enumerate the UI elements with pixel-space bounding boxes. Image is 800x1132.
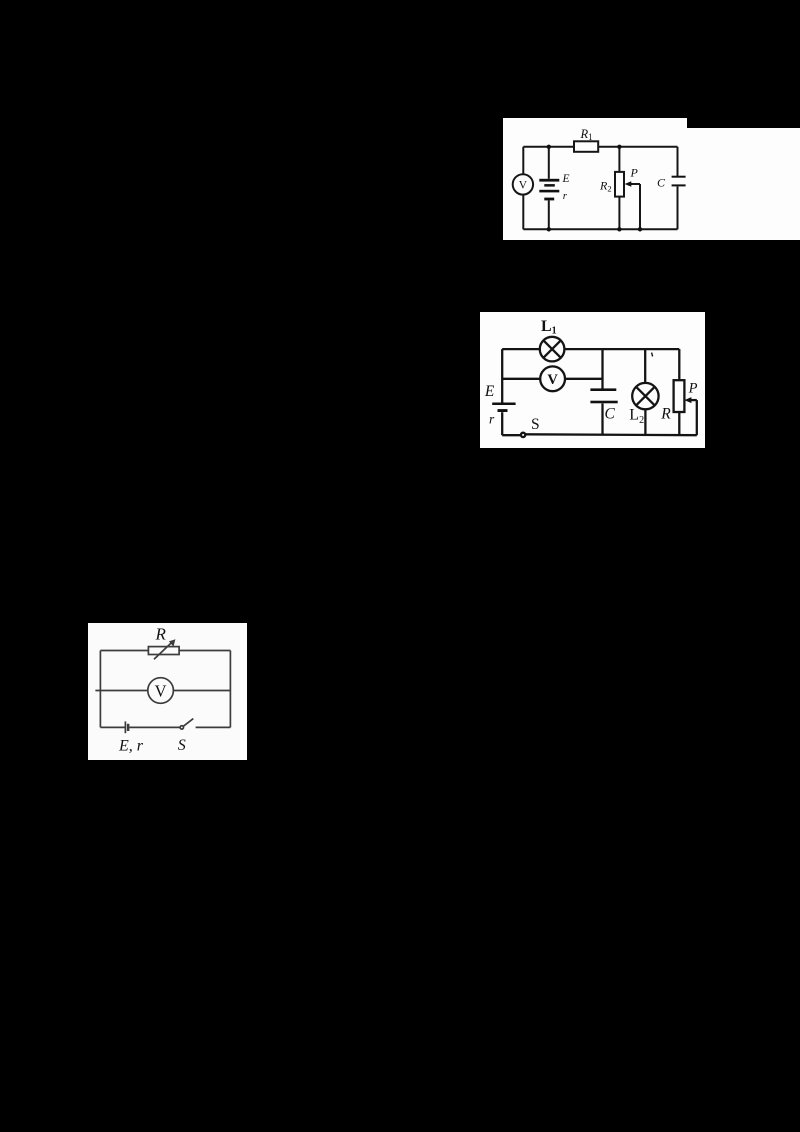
switch S contact circle [521, 433, 525, 437]
wire wiper P vertical [696, 400, 698, 435]
wire capacitor branch bottom [677, 186, 679, 229]
node D dot bottom R2 junction [617, 227, 621, 231]
capacitor C plate top [672, 176, 686, 178]
wire voltmeter row left [502, 378, 540, 380]
capacitor C plate bottom [590, 401, 617, 404]
battery E r plate short 2 [544, 198, 554, 201]
node A dot top battery junction [547, 145, 551, 149]
svg-text:S: S [178, 737, 186, 754]
wire top rail right segment [179, 650, 230, 652]
wire capacitor branch top [677, 147, 679, 176]
wire left vertical upper [501, 349, 503, 402]
svg-text:V: V [547, 372, 558, 388]
node B dot top R2 junction [617, 145, 621, 149]
svg-text:R: R [660, 405, 671, 422]
figure 2: battery/lamps L1 L2/voltmeter/capacitor/rheostat circuit [480, 312, 705, 448]
figure 3: battery/switch/voltmeter/variable resistor circuit [88, 623, 247, 760]
svg-text:r: r [563, 190, 568, 202]
wire battery branch bottom [548, 200, 550, 229]
figure 1: battery/voltmeter/R1/R2/C circuit [503, 118, 800, 240]
stray tick mark near L2 branch [652, 353, 653, 357]
white paper background of figure 3 [88, 623, 247, 760]
svg-text:V: V [155, 682, 167, 701]
wire top rail left of lamp L1 [502, 348, 540, 350]
wire lamp L2 branch top [644, 349, 646, 383]
svg-text:V: V [519, 180, 528, 192]
lamp L1 cross stroke 1 [544, 341, 561, 358]
wire left vertical upper (voltmeter to top rail) [522, 147, 524, 175]
variable resistor R arrowhead [169, 639, 176, 646]
variable resistor R box [148, 647, 179, 655]
switch S lever [184, 719, 194, 727]
switch S contact circle [180, 726, 183, 729]
svg-text:E: E [562, 173, 570, 185]
wire bottom rail right of switch [525, 433, 696, 436]
variable resistor R arrow shaft [154, 641, 173, 659]
battery E plate long [492, 403, 515, 406]
lamp L1 circle [540, 337, 565, 362]
wire top rail left segment [523, 146, 574, 148]
wire R2 branch bottom [618, 197, 620, 230]
wire bottom rail left of battery [100, 726, 125, 728]
wire left vertical lower (voltmeter to bottom rail) [522, 195, 524, 230]
wire R2 branch top [618, 147, 620, 172]
svg-text:R: R [155, 625, 167, 644]
wiper arrowhead into R [684, 397, 691, 403]
capacitor C plate bottom [672, 184, 686, 186]
battery E r plate long 2 [539, 190, 559, 193]
wire right vertical lower [678, 412, 680, 435]
svg-text:S: S [531, 416, 540, 433]
node C dot bottom battery junction [547, 227, 551, 231]
lamp L1 cross stroke 2 [544, 341, 561, 358]
wire left vertical lower below battery [501, 412, 503, 435]
capacitor C plate top [590, 388, 616, 391]
wire bottom rail right of switch [196, 726, 231, 728]
rheostat R box [674, 380, 685, 412]
wire battery branch top [548, 147, 550, 179]
node E dot bottom wiper junction [638, 227, 642, 231]
battery r plate short thick [127, 724, 129, 731]
lamp L2 cross stroke 2 [636, 387, 654, 405]
wire left vertical [99, 651, 101, 728]
svg-text:r: r [489, 411, 495, 426]
wire wiper P horizontal [629, 183, 640, 185]
wiper arrowhead into R2 [625, 181, 632, 187]
svg-text:C: C [657, 176, 666, 190]
svg-text:E: E [484, 383, 495, 400]
wire voltmeter row right [565, 378, 603, 380]
voltmeter U3 circle [148, 678, 174, 704]
voltmeter U2 circle [540, 366, 565, 391]
wire voltmeter row right [173, 690, 230, 692]
wire bottom rail battery to switch [129, 726, 179, 728]
wire top rail right segment [598, 146, 677, 148]
battery r plate short thick [498, 409, 508, 412]
resistor R2 [615, 172, 624, 197]
voltmeter U1 circle [513, 174, 533, 194]
wire top rail left segment [100, 650, 148, 652]
wire voltmeter row left [95, 690, 147, 692]
wire right vertical [229, 651, 231, 728]
resistor R1 [574, 141, 598, 152]
svg-text:C: C [605, 406, 616, 423]
lamp L2 circle [632, 383, 658, 409]
svg-text:P: P [630, 166, 639, 180]
svg-text:E, r: E, r [118, 737, 144, 754]
lamp L2 cross stroke 1 [636, 387, 654, 405]
svg-text:P: P [688, 380, 698, 396]
white paper background of figure 2 [480, 312, 705, 448]
battery E r plate long [124, 721, 126, 733]
battery E r plate long top [539, 179, 559, 182]
wire wiper P vertical [639, 184, 641, 229]
wire capacitor branch bottom [601, 404, 603, 436]
white paper background of figure 1 [503, 118, 800, 240]
battery E r plate short 1 [544, 184, 555, 187]
wire right vertical upper [678, 349, 680, 380]
wire capacitor branch top [601, 349, 603, 389]
wire lamp L2 branch bottom [644, 409, 646, 435]
wire top rail right of lamp L1 [564, 348, 679, 350]
wire wiper P horizontal [689, 399, 697, 401]
wire bottom rail left of switch [502, 434, 521, 436]
wire bottom rail [523, 228, 677, 230]
